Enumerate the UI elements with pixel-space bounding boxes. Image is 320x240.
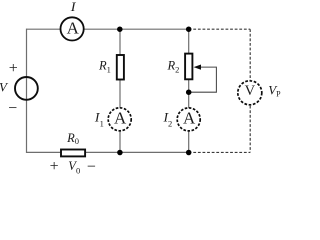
node junction bottom R1 <box>117 150 123 156</box>
wire R2 branch middle <box>188 80 190 108</box>
wire R1 branch middle <box>119 80 121 108</box>
svg-text:−: − <box>8 100 17 117</box>
svg-text:+: + <box>9 60 18 77</box>
wire R1 branch upper <box>119 29 121 54</box>
ammeter I1 (dashed) <box>108 108 131 131</box>
voltmeter VP (dashed) <box>238 81 262 105</box>
node junction bottom R2 <box>186 150 192 156</box>
ammeter I2 (dashed) <box>177 108 200 131</box>
wire bottom-left horizontal <box>27 151 61 153</box>
dashed wire top (node to voltmeter branch) <box>189 28 251 30</box>
dashed wire right vertical lower <box>249 106 251 153</box>
wire top-middle horizontal <box>84 28 189 30</box>
svg-text:+: + <box>50 158 59 175</box>
svg-text:A: A <box>183 108 196 127</box>
voltage source V <box>0 60 38 117</box>
svg-text:I: I <box>70 0 77 14</box>
svg-text:1: 1 <box>100 119 104 129</box>
svg-text:2: 2 <box>168 118 172 128</box>
node junction wiper <box>186 89 192 95</box>
wire R2 branch lower <box>188 131 190 152</box>
svg-text:A: A <box>67 19 80 38</box>
dashed wire right vertical upper <box>249 29 251 80</box>
node junction top R1 <box>117 26 123 32</box>
svg-text:A: A <box>114 108 127 127</box>
wire R2 branch upper <box>188 29 190 53</box>
resistor R1 <box>117 55 124 80</box>
svg-text:V: V <box>245 83 256 99</box>
wiper of R2 <box>190 65 216 93</box>
resistor R0 <box>61 150 85 157</box>
potentiometer R2 <box>185 54 192 80</box>
wire R1 branch lower <box>119 131 121 152</box>
wire left vertical <box>26 29 28 153</box>
node junction top R2 <box>186 26 192 32</box>
wire bottom-middle horizontal <box>86 151 189 153</box>
wire top-left horizontal <box>27 28 61 30</box>
svg-text:−: − <box>87 158 96 175</box>
ammeter U1 (A) <box>61 17 84 40</box>
dashed wire bottom (node to voltmeter branch) <box>189 151 251 153</box>
label + V0 - <box>50 158 96 176</box>
